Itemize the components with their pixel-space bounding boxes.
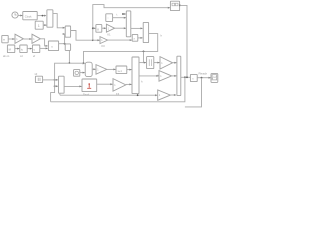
svg-text:Reach: Reach xyxy=(199,72,208,76)
wire TB feedback down right side xyxy=(180,5,187,77)
junction join at y63 wire xyxy=(83,62,85,64)
block source SB1 xyxy=(2,35,8,42)
arrow into Mux4 port2 xyxy=(174,75,176,77)
wire Mux1 out to Mux1c xyxy=(53,14,65,28)
wire stub into B8 xyxy=(93,27,96,29)
arrow into Mux4 port3 xyxy=(174,94,176,96)
wire branch down to B7 xyxy=(144,51,146,62)
junction junction under Mux3 xyxy=(137,94,139,96)
gain T7 xyxy=(106,24,114,32)
svg-text:w: w xyxy=(3,39,5,42)
wire bus up and right to Mux5 wire xyxy=(55,63,84,80)
gain T4 xyxy=(96,65,107,75)
wire Mux3 row2 to gain T2 xyxy=(139,75,159,77)
junction on Clock2 wire xyxy=(42,15,44,17)
svg-text:x0: x0 xyxy=(35,72,38,76)
wire frame wire up and right to TB xyxy=(93,5,170,41)
wire SB1 to gain G1 xyxy=(8,38,14,40)
wire T5 to Mux3 port2 xyxy=(126,83,132,85)
arrow into Mux1 port2 xyxy=(44,24,46,26)
arrow into Mux1b port2 xyxy=(124,17,126,19)
arrow into Mux6 port1 xyxy=(56,79,58,81)
wire T3 to Mux4 port3 xyxy=(170,94,176,96)
junction BB4 out branch xyxy=(64,43,66,45)
wire BL to bus xyxy=(43,79,55,81)
wire D to Mux2 port2 xyxy=(138,37,143,39)
wire T2 to Mux4 port2 xyxy=(172,75,177,77)
wire T7 out to Mux1b port3 xyxy=(115,27,126,29)
junction BB5 join xyxy=(69,62,71,64)
wire stub Mux3 bottom xyxy=(137,94,139,96)
wire clock to Clock2 xyxy=(18,15,22,17)
gain G1 xyxy=(15,34,23,43)
wire Mux5 out xyxy=(92,68,95,70)
arrow into T2 xyxy=(156,75,158,77)
wire T6 out to block D xyxy=(108,39,132,41)
block BB4 xyxy=(48,41,58,51)
arrow into T1 xyxy=(157,62,159,64)
svg-text:h: h xyxy=(141,80,143,84)
wire BB2 to BB3 xyxy=(27,48,32,50)
arrow into TB xyxy=(168,7,170,9)
wire stub Mux6 bottom to row wire xyxy=(59,93,61,95)
wire into Mux6 port1 xyxy=(55,79,58,81)
wire Mux6 out to RED block xyxy=(64,85,81,87)
block D xyxy=(132,34,138,41)
wire R out to scope xyxy=(197,77,210,79)
wire BB3 to BB4 xyxy=(40,47,48,49)
wire into Mux6 port2 xyxy=(55,85,58,87)
wire Mux3 row1 to B7 xyxy=(139,62,146,64)
wire B7 to gain T1 xyxy=(154,62,160,64)
gain G2 xyxy=(32,34,40,43)
wire stub into Mux1b port1 xyxy=(123,13,126,15)
mux Mux6 xyxy=(59,76,65,93)
arrow into BB3 xyxy=(30,48,32,50)
arrow into T7 xyxy=(104,27,106,29)
svg-text:h: h xyxy=(161,34,163,38)
wire BB5 drop to y63 wire xyxy=(68,50,70,63)
wire feedback bus1 bottom xyxy=(51,77,185,102)
arrow into BB4 port2 xyxy=(46,47,48,49)
block source S1 xyxy=(106,14,113,22)
mux Mux1c xyxy=(65,26,70,37)
junction branch into B8 xyxy=(92,27,94,29)
block B6 xyxy=(116,66,127,74)
wire bottom row wire to gain T3 xyxy=(60,94,157,96)
arrow into Mux2 port1 xyxy=(141,27,143,29)
block TB To-Workspace xyxy=(170,1,179,10)
junction branch feedback bus1 xyxy=(184,76,186,78)
wire G1 to gain G2 xyxy=(23,38,31,40)
arrow into Mux1b port3 xyxy=(124,27,126,29)
wire BB4 out xyxy=(59,43,65,45)
wire B6 to Mux3 xyxy=(127,69,132,71)
block B7 xyxy=(147,57,154,69)
C1 circle icon xyxy=(75,71,78,74)
wire into Mux5 port1 xyxy=(84,62,85,64)
wire T1 to Mux4 port1 xyxy=(173,62,177,64)
svg-text:::: :: xyxy=(107,16,109,20)
arrow into gain G1 xyxy=(12,38,14,40)
mux Mux1b xyxy=(126,11,131,37)
svg-text:1: 1 xyxy=(38,24,40,28)
mux Mux1 xyxy=(47,10,53,27)
junction junction Mux1c-out and frame riser xyxy=(92,39,94,41)
arrow into T6 xyxy=(97,39,99,41)
svg-text:s+1: s+1 xyxy=(118,69,123,73)
arrow into Mux1 port1 xyxy=(44,15,46,17)
arrow into Mux1b port1 xyxy=(124,13,126,15)
svg-text:K1: K1 xyxy=(107,33,111,37)
arrow into Mux3 port2 xyxy=(129,83,131,85)
arrow into Mux6 port2 xyxy=(56,85,58,87)
wire Mux2 out long feedback down xyxy=(84,34,158,64)
block BB2 xyxy=(20,45,27,53)
arrow into RED block xyxy=(79,85,81,87)
S-function block (red icon) xyxy=(82,79,97,92)
mux Mux2 xyxy=(143,22,148,42)
wire bus down to feedback xyxy=(51,80,55,102)
svg-text:K0: K0 xyxy=(102,44,106,48)
junction branch feedback bus2 xyxy=(201,77,203,79)
arrow into B6 xyxy=(113,68,115,70)
junction branch to B7 xyxy=(143,51,145,53)
BL icon bars xyxy=(38,78,40,81)
block BB1 xyxy=(7,45,14,53)
mux Mux3 xyxy=(132,57,139,94)
junction join TB feedback xyxy=(186,76,188,78)
arrow into BB2 xyxy=(17,48,19,50)
arrow into BB4 port1 xyxy=(46,45,48,47)
junction TB out dot xyxy=(179,5,181,7)
svg-text:Clock: Clock xyxy=(25,14,32,18)
svg-text:Pend: Pend xyxy=(83,93,90,97)
wire Mux1c out down to junction xyxy=(71,31,93,41)
scope xyxy=(211,74,218,83)
block BL xyxy=(35,76,42,82)
arrow into scope xyxy=(209,77,211,79)
clock source xyxy=(12,12,18,18)
junction Mux1b port1 stub end xyxy=(122,13,124,15)
arrow into gain G2 xyxy=(29,38,31,40)
wire riser to Mux1c port2 xyxy=(64,34,66,44)
gain T6 xyxy=(100,37,108,44)
mux Mux5 xyxy=(85,62,92,76)
constant 1 xyxy=(35,21,43,29)
arrow into Mux5 port1 xyxy=(83,62,85,64)
block B8 xyxy=(96,25,102,33)
arrow into Mux1c port1 xyxy=(63,27,65,29)
arrow into Mux4 port1 xyxy=(174,62,176,64)
wire G2 to block BB4 xyxy=(40,39,47,46)
arrow into T5 xyxy=(110,83,112,85)
svg-text:ef: ef xyxy=(33,55,35,58)
arrow into B7 xyxy=(144,62,146,64)
svg-text:ab on: ab on xyxy=(3,55,10,58)
wire S1 to Mux1b port2 xyxy=(113,17,126,19)
gain T1 xyxy=(160,57,173,69)
arrow into gain T4 xyxy=(93,68,95,70)
wire constant to Mux1 xyxy=(43,24,46,26)
arrow into D xyxy=(130,39,132,41)
block BB5 xyxy=(65,44,70,51)
wire C1 to Mux5 port2 xyxy=(80,72,85,74)
wire Clock2 to Mux1 xyxy=(37,15,45,17)
svg-text:t: t xyxy=(117,13,118,17)
wire junction into gain T6 xyxy=(93,39,100,41)
arrow into Mux1c port2 xyxy=(63,33,65,35)
TB icon xyxy=(172,3,175,6)
red pendulum icon xyxy=(88,84,90,88)
wire feedback bus2 bottom xyxy=(185,78,202,107)
svg-text:M: M xyxy=(9,48,11,52)
junction bus upper xyxy=(54,79,56,81)
mux Mux4 xyxy=(177,56,181,95)
wire B8 to gain T7 xyxy=(102,27,106,29)
wire Mux1b out to Mux2 port1 xyxy=(131,27,143,29)
wire T4 to B6 xyxy=(107,68,116,70)
gain T3 xyxy=(158,90,171,100)
arrow into T3 xyxy=(155,94,157,96)
arrow into Mux2 port2 xyxy=(141,37,143,39)
arrow into Mux3 port1 xyxy=(129,69,131,71)
arrow into B8 xyxy=(93,27,95,29)
wire BB1 to BB2 xyxy=(15,48,19,50)
arrow into Clock2 xyxy=(20,15,22,17)
svg-text:cd: cd xyxy=(20,55,23,58)
arrow into Mux5 port2 xyxy=(83,72,85,74)
gain T2 xyxy=(159,71,172,82)
gain T5 xyxy=(113,79,126,92)
wire Mux4 out to Reach block xyxy=(181,76,190,78)
block C1 xyxy=(74,70,80,77)
junction bus lower xyxy=(54,85,56,87)
block BB3 xyxy=(32,45,39,53)
B7 icon squiggle xyxy=(149,59,151,66)
block Clock2 xyxy=(23,12,37,20)
wire RED out to gain T5 xyxy=(97,83,113,85)
block R xyxy=(190,74,197,81)
